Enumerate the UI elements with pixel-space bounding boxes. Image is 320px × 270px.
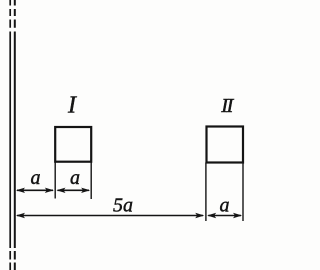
dimension line a (square I width)	[56, 188, 90, 193]
wire W (long straight wire, double line, right inner line)	[14, 0, 16, 270]
dimension line a (wire to square I)	[16, 188, 54, 193]
extension line (square II left edge)	[205, 163, 207, 222]
dimension line a (square II width)	[207, 213, 242, 218]
extension line (square I left edge)	[54, 162, 56, 199]
extension line (square II right edge)	[242, 163, 244, 222]
square loop I	[55, 127, 91, 162]
svg-text:a: a	[220, 195, 230, 217]
svg-text:5a: 5a	[113, 195, 133, 217]
svg-text:a: a	[70, 167, 80, 189]
svg-text:II: II	[220, 95, 234, 117]
square loop II	[207, 127, 244, 163]
svg-text:a: a	[31, 167, 41, 189]
svg-text:I: I	[67, 93, 77, 119]
wire W (long straight wire, double line, left inner line)	[9, 0, 11, 270]
extension line (square I right edge)	[90, 162, 92, 200]
dimension line 5a (wire to square II)	[16, 213, 204, 218]
